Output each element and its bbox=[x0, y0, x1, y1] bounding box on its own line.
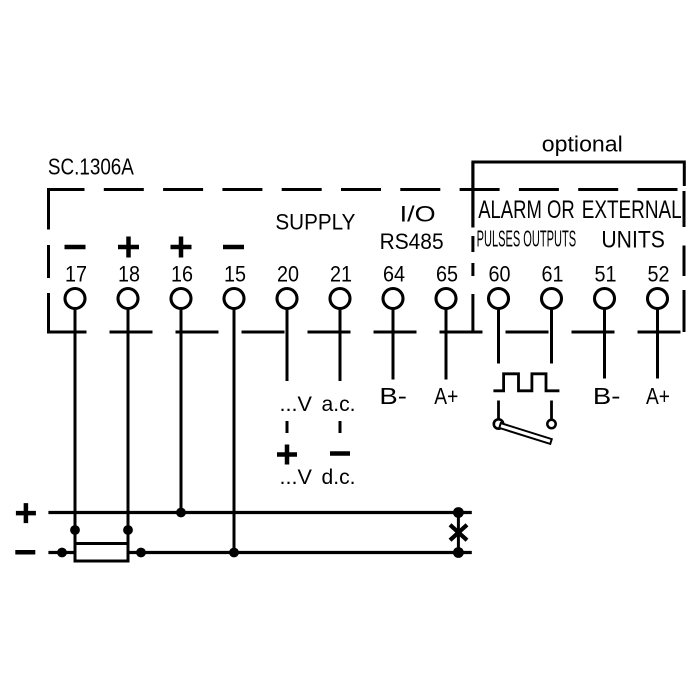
svg-text:RS485: RS485 bbox=[380, 229, 444, 254]
svg-text:SUPPLY: SUPPLY bbox=[275, 209, 355, 234]
terminal 52 circle bbox=[648, 289, 668, 309]
supply plus symbol bbox=[277, 445, 297, 465]
polarity plus above terminal 16 bbox=[171, 237, 192, 258]
minus bus label bbox=[15, 550, 35, 555]
svg-text:60: 60 bbox=[489, 261, 511, 286]
wire terminal 64 bbox=[392, 309, 395, 380]
shunt resistor bbox=[75, 544, 128, 562]
supply dash below 21 bbox=[339, 421, 342, 433]
terminal 17 circle bbox=[65, 289, 85, 309]
minus bus wire left segment bbox=[48, 551, 75, 554]
svg-text:UNITS: UNITS bbox=[601, 227, 665, 254]
wire terminal 20 supply bbox=[286, 309, 289, 382]
switch contact left circle bbox=[494, 419, 503, 428]
svg-text:I/O: I/O bbox=[400, 201, 436, 226]
terminal 18 circle bbox=[118, 289, 138, 309]
svg-text:52: 52 bbox=[648, 261, 670, 286]
wire terminal 51 bbox=[603, 309, 606, 379]
terminal 51 circle bbox=[595, 289, 615, 309]
svg-text:21: 21 bbox=[330, 261, 352, 286]
terminal 20 circle bbox=[277, 289, 297, 309]
plus bus wire bbox=[48, 511, 471, 514]
minus bus wire right segment bbox=[128, 551, 472, 554]
terminal 64 circle bbox=[383, 289, 403, 309]
load wire between buses bbox=[457, 513, 460, 553]
junction dot on wire 17 bbox=[70, 525, 80, 535]
polarity plus above terminal 18 bbox=[118, 237, 139, 258]
supply minus symbol bbox=[330, 451, 350, 456]
wire pulse to switch left bbox=[497, 401, 500, 420]
switch lever bbox=[499, 423, 552, 444]
wire terminal 16 to plus bus bbox=[180, 309, 183, 513]
svg-text:...V: ...V bbox=[280, 466, 313, 489]
svg-text:51: 51 bbox=[595, 261, 617, 286]
meter outline dashed box top edge bbox=[49, 188, 685, 191]
terminal 61 circle bbox=[542, 289, 562, 309]
terminal 65 circle bbox=[436, 289, 456, 309]
svg-text:B-: B- bbox=[379, 383, 407, 409]
svg-text:18: 18 bbox=[118, 261, 140, 286]
terminal 15 circle bbox=[224, 289, 244, 309]
wire terminal 17 to shunt left bbox=[74, 309, 77, 544]
svg-text:SC.1306A: SC.1306A bbox=[48, 154, 135, 180]
terminal 16 circle bbox=[171, 289, 191, 309]
svg-text:64: 64 bbox=[383, 261, 405, 286]
load X mark bbox=[450, 525, 467, 540]
junction dot on wire 18 bbox=[123, 525, 133, 535]
optional bracket bbox=[473, 162, 684, 228]
junction dot load bottom bbox=[453, 547, 464, 558]
svg-text:...V: ...V bbox=[280, 393, 313, 416]
meter outline dashed box right edge bbox=[683, 191, 686, 332]
meter outline dashed box bottom edge bbox=[49, 331, 685, 334]
junction dot load top bbox=[453, 507, 464, 518]
wire pulse to switch right bbox=[550, 401, 553, 420]
svg-text:a.c.: a.c. bbox=[322, 393, 356, 416]
junction dot minus bus right of shunt bbox=[136, 548, 146, 558]
svg-text:65: 65 bbox=[436, 261, 458, 286]
svg-text:EXTERNAL: EXTERNAL bbox=[582, 196, 682, 224]
svg-text:ALARM OR: ALARM OR bbox=[478, 196, 575, 224]
svg-text:A+: A+ bbox=[434, 383, 458, 409]
junction dot minus bus left of shunt bbox=[57, 548, 67, 558]
svg-text:20: 20 bbox=[277, 261, 299, 286]
junction dot wire 16 on plus bus bbox=[176, 508, 186, 518]
polarity minus above terminal 17 bbox=[65, 245, 86, 250]
plus bus label bbox=[16, 503, 36, 523]
switch contact right circle bbox=[547, 420, 555, 428]
polarity minus above terminal 15 bbox=[223, 245, 244, 250]
terminal 21 circle bbox=[330, 289, 350, 309]
meter outline dashed box left edge bbox=[47, 188, 50, 334]
wire terminal 15 to minus bus bbox=[233, 309, 236, 553]
svg-text:PULSES OUTPUTS: PULSES OUTPUTS bbox=[477, 226, 576, 252]
svg-text:A+: A+ bbox=[646, 383, 670, 409]
svg-text:17: 17 bbox=[65, 261, 87, 286]
wire terminal 60 upper bbox=[497, 309, 500, 364]
pulse output waveform symbol bbox=[493, 374, 559, 391]
supply dash below 20 bbox=[286, 421, 289, 433]
svg-text:15: 15 bbox=[224, 261, 246, 286]
svg-text:B-: B- bbox=[593, 383, 621, 409]
svg-text:optional: optional bbox=[542, 132, 623, 157]
wire terminal 61 upper bbox=[550, 309, 553, 364]
terminal 60 circle bbox=[489, 289, 509, 309]
wire terminal 18 to shunt right bbox=[127, 309, 130, 544]
optional section boundary dashed line bbox=[471, 162, 474, 332]
wire terminal 65 bbox=[445, 309, 448, 380]
svg-text:16: 16 bbox=[171, 261, 193, 286]
svg-text:d.c.: d.c. bbox=[322, 466, 356, 489]
wire terminal 52 bbox=[656, 309, 659, 379]
wire terminal 21 supply bbox=[339, 309, 342, 382]
junction dot wire 15 on minus bus bbox=[229, 548, 239, 558]
svg-text:61: 61 bbox=[542, 261, 564, 286]
